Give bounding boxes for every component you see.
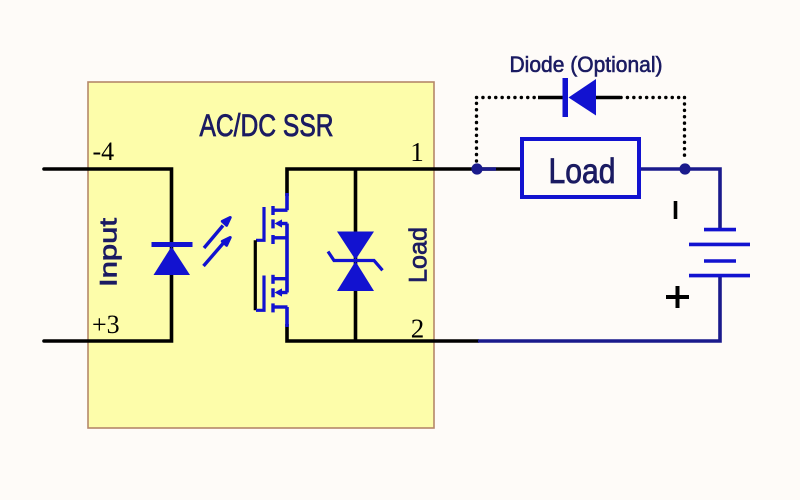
svg-text:Input: Input [95,218,122,287]
SSR body (yellow box) [88,82,434,428]
dotted wire right vertical [683,98,686,162]
transistor Q1 channel bars [271,206,274,244]
wire: bottom output wire pin 2 (black part) [287,324,479,341]
svg-text:2: 2 [411,314,425,344]
wire: input pin 4 and pin 3 with LED branch [44,169,172,341]
transistor Q2 drain stub [274,305,288,308]
dotted wire left horizontal [477,96,539,99]
transistor Q2 source stub [274,277,288,280]
wire: top output wire pin 1 [287,169,522,196]
LED light arrow 2 [204,238,231,267]
wire: top navy from load to battery [639,169,720,228]
diode D2 wire left [538,96,564,100]
wire: navy segment right of junction [479,167,496,171]
TVS upper triangle [337,232,374,260]
Load box [522,139,639,197]
dotted wire left vertical [475,98,478,162]
transistor Q1 source stub [274,236,288,239]
transistor Q2 body arrow [275,288,288,296]
TVS zener crossbar [328,252,383,271]
transistor Q1 drain stub [274,208,288,211]
svg-text:Load: Load [405,227,433,283]
svg-text:Load: Load [549,152,616,191]
LED light arrow 1 [204,218,230,249]
label plus terminal [666,286,689,308]
opto LED D1 cathode bar [152,242,193,247]
svg-text:AC/DC SSR: AC/DC SSR [200,107,334,143]
dotted wire right horizontal [621,96,685,99]
battery B1 plates [689,230,750,276]
wire: MOSFET drain/source vertical (blue) [285,193,289,327]
svg-text:-4: -4 [93,137,115,166]
wire: TVS vertical [354,169,358,341]
diode D2 wire right [595,96,620,100]
TVS lower triangle [337,261,374,291]
diode D2 triangle [569,79,597,116]
junction dot A [471,163,482,174]
svg-text:1: 1 [410,137,424,167]
opto LED D1 triangle [154,247,191,276]
svg-text:Diode (Optional): Diode (Optional) [510,52,663,77]
diode D2 cathode bar [563,78,569,117]
wire: bottom navy part to battery [478,277,720,341]
wire: gate bus (black) [254,240,257,310]
label minus terminal [674,201,678,219]
transistor Q1 body arrow [275,219,288,227]
junction dot B [679,163,690,174]
transistor Q2 gate (bottom MOSFET) [256,276,264,311]
svg-text:+3: +3 [92,310,120,339]
transistor Q1 gate (top MOSFET) [256,207,264,240]
transistor Q2 channel bars [271,275,274,313]
